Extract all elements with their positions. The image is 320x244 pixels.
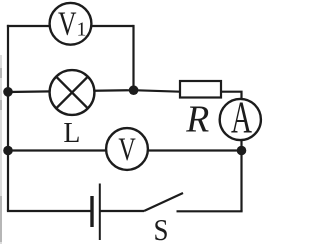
wire resistor to ammeter [221,92,242,151]
svg-text:V: V [58,6,77,43]
resistor R [180,81,221,98]
wire right rail [240,151,242,212]
wire voltmeter row [8,149,242,151]
node junction left voltmeter row [3,146,13,156]
wire top branch [7,25,134,27]
svg-text:V: V [118,132,136,168]
wire battery to switch [100,210,145,212]
voltmeter V [106,128,148,170]
battery [92,184,100,241]
wire left rail [7,25,9,211]
node junction lamp-resistor [129,85,139,95]
svg-text:1: 1 [77,19,87,41]
lamp L [50,70,95,115]
node junction left lamp row [3,87,13,97]
svg-text:L: L [63,117,80,149]
node junction right voltmeter row [237,146,247,156]
svg-text:S: S [154,212,169,244]
wire V1 right drop [132,25,134,90]
wire bottom left to battery [7,210,92,212]
wire lamp row [8,90,180,92]
ammeter A [220,93,261,143]
svg-text:R: R [185,99,209,141]
voltmeter V1 [50,3,92,45]
wire switch to bottom right [177,210,243,212]
svg-text:A: A [231,93,252,143]
switch S lever [144,193,183,211]
